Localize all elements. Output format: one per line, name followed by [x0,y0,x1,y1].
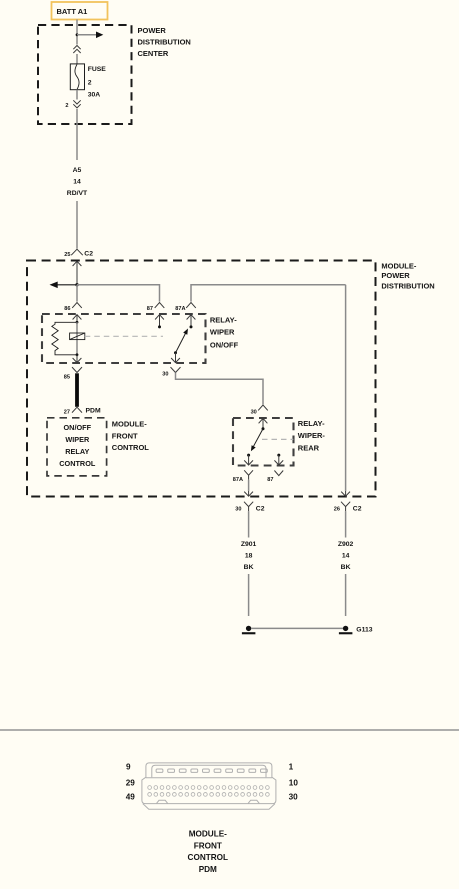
connector pin labels right [289,763,299,802]
svg-text:1: 1 [289,763,294,772]
svg-text:RELAY: RELAY [65,447,89,456]
svg-text:87: 87 [267,477,273,483]
pin 85 exit arrow [73,355,82,363]
resistor (relay coil shunt) [52,322,77,355]
svg-text:POWER: POWER [138,26,167,35]
module-power distribution label [381,262,434,291]
connector hole row (pins 10-29) [148,786,270,790]
svg-text:MODULE-: MODULE- [112,419,147,428]
pin 30 exit arrow [171,353,180,363]
fuse 2 30A [70,64,84,90]
svg-text:87: 87 [147,306,153,312]
svg-text:RELAY-: RELAY- [298,419,325,428]
wire label Z901 18 BK [241,541,257,571]
wire Z901 lower [248,574,250,616]
power distribution center label [138,26,191,58]
wire PDC to C2 [76,109,78,160]
svg-text:PDM: PDM [199,865,217,874]
svg-text:BK: BK [341,564,351,571]
relay armature [174,329,188,355]
wire to connector C2 pin 25 [76,201,78,249]
svg-text:C2: C2 [353,505,362,512]
svg-text:RD/VT: RD/VT [67,190,88,197]
relay coil K1 [70,333,85,340]
connector PDM shell [142,763,276,809]
svg-text:30: 30 [162,371,168,377]
svg-text:30A: 30A [88,92,101,99]
svg-text:BATT A1: BATT A1 [57,7,88,16]
svg-text:DISTRIBUTION: DISTRIBUTION [138,38,191,47]
coil wire through [76,322,78,355]
svg-text:RELAY-: RELAY- [210,315,237,324]
connector pin 30 rear relay [251,405,268,416]
svg-text:87A: 87A [175,306,185,312]
svg-text:85: 85 [64,374,70,380]
pin 87A rear [233,470,253,483]
svg-text:BK: BK [244,564,254,571]
wire label Z902 14 BK [338,541,354,571]
contact 87 (normally open) [155,315,164,329]
svg-text:POWER: POWER [381,271,410,280]
fuse labels FUSE 2 30A [88,66,107,99]
mechanical linkage (dashed) [85,335,163,337]
svg-text:86: 86 [64,306,70,312]
node coil top junction [76,321,79,324]
wire into fuse [76,54,78,64]
svg-text:G113: G113 [356,626,372,633]
pin 25 entry arrow into module box [73,261,82,285]
node junction at PDC feed [76,33,79,36]
svg-text:29: 29 [126,778,136,787]
relay-wiper on/off label [210,315,239,349]
ground G113 right [339,626,373,635]
connector hole row (pins 30-49) [148,793,270,797]
module exit arrow right [341,491,350,496]
pin 30 [162,367,180,377]
ground G113 left [242,626,256,635]
svg-text:Z901: Z901 [241,541,257,548]
svg-text:MODULE-: MODULE- [381,262,416,271]
pin 87 rear [267,471,283,483]
pin 30 entry arrow into rear relay [259,418,268,428]
on/off wiper relay control box [47,418,107,476]
svg-text:49: 49 [126,792,136,801]
svg-text:PDM: PDM [86,408,101,415]
node BATT A1 [52,2,108,20]
rear relay armature [251,429,263,452]
connector C2 pin 25 [64,249,93,258]
connector slot row (pins 1-9) [156,769,267,772]
connector pin labels left [126,763,136,802]
svg-text:DISTRIBUTION: DISTRIBUTION [381,282,434,291]
connector C2 pin 26 [334,502,362,513]
module-front control label [112,419,149,452]
wire label A5 14 RD/VT [67,167,88,197]
svg-text:10: 10 [289,778,299,787]
rear mechanical linkage (dashed) [262,438,293,440]
wire out of fuse [76,90,78,100]
svg-text:CONTROL: CONTROL [188,853,228,862]
wire 87A to module edge [248,480,250,491]
node rear common contact [262,427,265,430]
svg-text:14: 14 [342,552,350,559]
svg-text:9: 9 [126,763,131,772]
separator line [0,729,459,731]
inline connector double chevron above fuse [73,46,80,54]
svg-text:18: 18 [245,552,253,559]
connector title MODULE-FRONT CONTROL PDM [188,829,228,874]
svg-text:2: 2 [88,80,92,87]
svg-text:WIPER-: WIPER- [298,431,326,440]
svg-text:WIPER: WIPER [210,328,235,337]
on/off wiper relay control label [59,423,96,468]
pin 85 [64,367,82,380]
connector C2 pin 30 [235,502,264,513]
pin 86 [64,303,82,312]
svg-text:30: 30 [235,506,241,512]
svg-text:ON/OFF: ON/OFF [64,423,92,432]
contact 87A (normally closed) [187,315,196,329]
svg-text:25: 25 [64,252,70,258]
svg-text:27: 27 [64,410,70,416]
svg-text:30: 30 [289,792,299,801]
pin 87A [175,303,196,312]
svg-text:14: 14 [73,178,81,185]
svg-text:Z902: Z902 [338,541,354,548]
wire junction down to pin 86 [76,285,78,302]
svg-text:FRONT: FRONT [194,842,222,851]
svg-text:ON/OFF: ON/OFF [210,340,239,349]
wire 87A to rear feed [191,285,346,302]
wire relay1 pin30 to rear relay [176,373,264,405]
svg-text:26: 26 [334,506,340,512]
relay-wiper on/off box [42,314,206,363]
svg-text:A5: A5 [73,167,82,174]
pin 86 entry arrow into relay [73,315,82,323]
module-power distribution box [27,261,376,497]
svg-text:REAR: REAR [298,443,320,452]
svg-text:C2: C2 [84,250,93,257]
pin 87 [147,303,165,312]
rear contact 87A pivot [244,454,253,465]
svg-text:FUSE: FUSE [88,66,107,73]
relay-wiper-rear label [298,419,326,453]
svg-text:87A: 87A [233,477,243,483]
ground bus wire [251,627,343,629]
wire junction to pin 87 [77,285,160,302]
svg-text:C2: C2 [256,505,265,512]
inline connector double chevron below fuse [73,100,80,108]
svg-text:FRONT: FRONT [112,431,138,440]
power distribution center box [38,25,132,124]
svg-text:2: 2 [65,103,68,109]
node coil bottom junction [76,353,79,356]
relay-wiper-rear box [233,418,294,466]
module exit arrow left [244,491,253,496]
svg-text:WIPER: WIPER [65,435,90,444]
wire feed to other circuits (arrow right) [77,32,103,39]
svg-text:MODULE-: MODULE- [189,829,227,838]
wire rear 87A feed right branch [345,285,347,491]
rear contact 87 [274,454,283,465]
wire from BATT A1 into PDC [76,20,78,45]
node junction at 86 feed [75,283,78,286]
svg-text:CENTER: CENTER [138,49,169,58]
svg-text:30: 30 [251,410,257,416]
wire Z901 upper [248,511,250,537]
wire Z902 upper [345,511,347,537]
svg-text:CONTROL: CONTROL [112,443,149,452]
wire Z902 lower [345,574,347,616]
pin 27 PDM [64,407,101,415]
wire feed to other circuits (arrow left) [50,282,78,289]
thick wire 85 to PDM pin 27 [75,373,79,407]
svg-text:CONTROL: CONTROL [59,459,96,468]
